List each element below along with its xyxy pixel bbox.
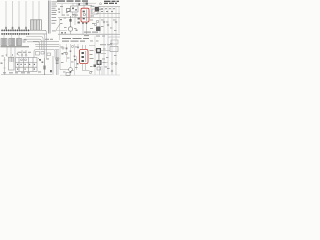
connector J1 (ladder block) xyxy=(31,20,42,30)
component marks center xyxy=(66,47,79,57)
mark cluster (58-62, 8-12) xyxy=(58,9,62,21)
terminal T2 xyxy=(12,27,14,30)
caption text lower fig xyxy=(62,38,89,42)
wire V1 xyxy=(5,1,7,27)
wire H-left-mid xyxy=(55,30,67,32)
wire H-right2 xyxy=(96,13,120,15)
wire V-76.5 xyxy=(76,56,78,70)
wire H-96-53 xyxy=(96,53,106,55)
bottom wire xyxy=(1,74,52,76)
sensor cluster (right of control unit) xyxy=(39,59,43,63)
node circle (63,48) xyxy=(62,47,64,49)
diagonal lead xyxy=(17,53,20,56)
wire V2 xyxy=(12,1,14,27)
diode D1 xyxy=(65,52,67,54)
wire V3 xyxy=(18,1,20,27)
node circle (72.5,46) xyxy=(71,45,73,47)
wire V-right-low group xyxy=(100,33,117,75)
lamp M2 xyxy=(69,68,73,73)
control unit box xyxy=(16,58,38,72)
marks above separator xyxy=(61,32,66,33)
highlight box A (red) xyxy=(81,8,89,22)
wire V-center group xyxy=(60,44,78,75)
relay box K1 xyxy=(71,6,79,12)
wire K1 leads down xyxy=(73,12,77,18)
misc marks bottom-left xyxy=(2,56,50,73)
wire below B xyxy=(82,70,90,72)
box right (110,47) xyxy=(110,47,118,52)
wire V-59 xyxy=(59,18,61,40)
relay box K2 xyxy=(9,57,15,70)
wire stubs (lower right) xyxy=(89,37,120,63)
wire V4 xyxy=(25,1,27,27)
title text (top) xyxy=(57,0,88,1)
wire motor to separator xyxy=(70,31,72,34)
label dashes (mid top) xyxy=(62,14,78,17)
label near coils xyxy=(23,40,27,43)
diagonal mark xyxy=(38,58,41,61)
node circle (90,72) xyxy=(89,71,91,73)
node circle (74.5,15) xyxy=(73,14,75,16)
junction cluster xyxy=(96,27,101,32)
wire V-right group xyxy=(100,7,119,33)
wire V-75 xyxy=(74,14,76,25)
label dashes (above module) xyxy=(45,38,53,41)
wire V-91 xyxy=(90,5,92,18)
wire V-95 xyxy=(94,36,96,75)
label marks (right of A) xyxy=(91,6,104,17)
wire left column xyxy=(4,57,6,75)
pin labels (upper right table) xyxy=(101,8,115,12)
fuse F1 xyxy=(78,3,80,5)
coil block L3 (hatched) xyxy=(17,39,22,46)
terminal T4 xyxy=(25,27,27,30)
net labels (right column upper) xyxy=(101,20,117,31)
diagonal lead (upper mid) xyxy=(56,24,60,30)
terminal T1 xyxy=(5,27,7,30)
junction blob right xyxy=(94,65,97,68)
caption row (mid) xyxy=(84,32,98,37)
label marks right of B xyxy=(90,50,98,59)
label above control unit xyxy=(18,51,32,54)
transistor Q1 xyxy=(43,58,45,75)
wire fan (harness bend) xyxy=(24,30,59,58)
wire V-73 xyxy=(72,3,74,6)
relay K3 (dark) xyxy=(96,48,101,53)
switch S1 xyxy=(66,9,71,14)
coil block L1 (hatched) xyxy=(1,39,7,46)
pilot circles above control unit xyxy=(21,50,27,56)
label text column xyxy=(52,2,58,32)
text below separator (right) xyxy=(96,35,105,38)
wire H-top xyxy=(57,2,96,4)
motor M1 xyxy=(68,16,72,31)
small box below K4 xyxy=(97,67,101,70)
component marks center2 xyxy=(62,53,79,65)
junction blob xyxy=(50,70,52,72)
net labels (lower mid) xyxy=(61,47,78,73)
bottom wire mid xyxy=(60,74,90,76)
node circle pair xyxy=(94,20,99,26)
module box (rounded) xyxy=(34,50,55,58)
connector ladder C2 xyxy=(53,50,59,75)
wire V6 xyxy=(38,1,40,20)
net labels (lower right) xyxy=(90,41,117,72)
terminal T3 xyxy=(18,27,20,30)
figure separator line xyxy=(58,33,120,35)
component cluster (x78) xyxy=(78,18,80,24)
mark (75,29) xyxy=(76,30,78,31)
title block text (top right) xyxy=(104,1,119,4)
small box bottom middle xyxy=(66,73,70,76)
relay K4 (dark) xyxy=(97,60,102,65)
bus line B1 xyxy=(1,30,46,32)
wire V5 xyxy=(32,1,34,20)
bottom wire right xyxy=(90,74,120,76)
wire K3-K4 xyxy=(97,53,99,60)
wire pins of B xyxy=(83,45,86,70)
wire H-right3 xyxy=(58,17,120,19)
highlight box B (red) xyxy=(80,50,89,64)
wire from A down xyxy=(82,22,87,34)
shield boundary (double line) xyxy=(48,1,50,34)
coil leads xyxy=(4,35,19,39)
text row right (y44) xyxy=(100,43,112,46)
wire V-77 xyxy=(76,3,78,6)
wire H-mid-bottom xyxy=(60,62,69,70)
net labels (mid upper) xyxy=(60,6,95,29)
wire V-62 xyxy=(61,4,63,16)
node circles right xyxy=(103,21,117,26)
ground bus xyxy=(1,46,30,48)
wire above box A xyxy=(78,1,92,8)
bus line B2 xyxy=(1,33,47,35)
relay K5 (dark, upper) xyxy=(94,7,100,14)
left edge mark xyxy=(1,63,3,64)
node circles bottom right xyxy=(111,63,117,73)
bottom label row xyxy=(3,71,30,74)
connector block right of A xyxy=(92,9,98,14)
wire H-right1 xyxy=(98,6,120,8)
coil block L2 (hatched) xyxy=(9,39,15,46)
node circle (100,4) xyxy=(100,3,102,5)
box right (111,40) xyxy=(111,40,118,44)
wire stubs below bus xyxy=(7,47,15,57)
tick marks xyxy=(6,54,18,56)
label dashes (100-108,58) xyxy=(102,59,107,68)
